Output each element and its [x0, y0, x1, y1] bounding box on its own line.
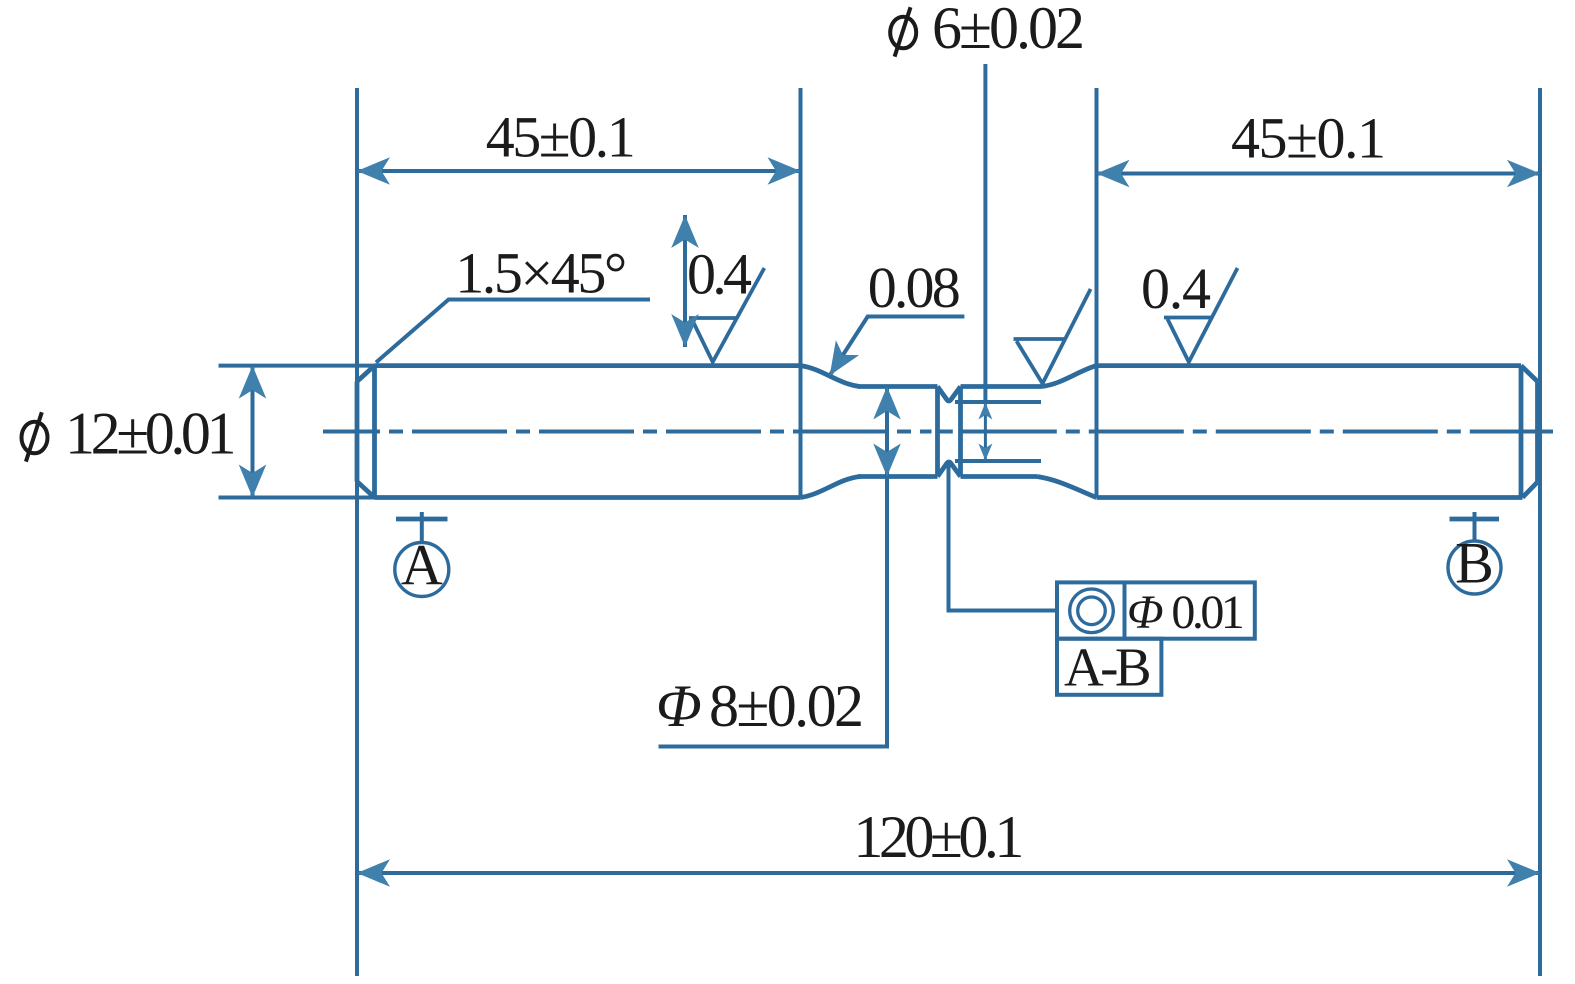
part outline: left grip top — [375, 363, 801, 368]
phi6 small arrows — [978, 403, 992, 420]
extension line left (x=357) — [355, 88, 359, 976]
svg-text:Φ: Φ — [656, 673, 702, 739]
svg-text:45±0.1: 45±0.1 — [486, 105, 636, 170]
svg-text:0.4: 0.4 — [687, 242, 752, 307]
dimension 45±0.1 right: line — [1097, 172, 1541, 176]
part outline: left grip bottom — [375, 495, 801, 500]
leader 0.08 — [830, 317, 965, 376]
datum reference box A-B — [1057, 639, 1161, 695]
svg-text:1.5×45°: 1.5×45° — [455, 241, 627, 306]
part outline: notch left edge — [935, 387, 940, 477]
dimension 120±0.1: line — [357, 871, 1540, 875]
part outline: right grip bottom — [1097, 495, 1523, 500]
part outline: notch right edge — [958, 387, 963, 477]
svg-text:A-B: A-B — [1064, 637, 1152, 698]
phi12 extension stub bottom — [219, 496, 376, 500]
svg-text:Φ: Φ — [1127, 586, 1164, 639]
part outline: phi8 gauge bottom left — [858, 474, 938, 479]
text phi 12±0.01 — [22, 412, 48, 461]
roughness symbol right grip — [1164, 268, 1238, 362]
concentricity symbol — [1070, 589, 1114, 633]
part outline: right grip top — [1097, 363, 1522, 368]
part outline: phi8 top right — [961, 384, 1043, 389]
svg-text:0.08: 0.08 — [868, 255, 961, 320]
leader to concentricity frame — [949, 462, 1058, 611]
center line (axis) right part — [939, 430, 1553, 434]
extension line right (x=1540) — [1538, 88, 1542, 976]
datum A: bar, stem, circle — [396, 517, 448, 522]
svg-text:120±0.1: 120±0.1 — [853, 804, 1024, 870]
part outline: left chamfer — [357, 366, 375, 498]
datum B: bar, stem, circle — [1450, 517, 1500, 522]
0.08 leader arrowhead — [818, 340, 859, 383]
svg-text:8±0.02: 8±0.02 — [709, 673, 864, 739]
part outline: phi8 bottom right — [961, 474, 1038, 479]
0.4 vertical double arrow heads — [671, 215, 699, 248]
45 right dim arrows — [1097, 160, 1130, 188]
part outline: left taper bottom curve — [801, 477, 861, 498]
roughness symbol middle (phi8 section) — [1014, 289, 1091, 384]
part outline: phi8 gauge top left — [858, 384, 938, 389]
phi8 dim arrows — [873, 387, 901, 420]
leader 1.5x45 — [376, 300, 650, 363]
svg-text:6±0.02: 6±0.02 — [932, 0, 1085, 61]
svg-text:45±0.1: 45±0.1 — [1231, 106, 1386, 171]
extension line left-inner (x=800.5) — [799, 88, 803, 497]
dimension 45±0.1 left: line — [357, 169, 801, 173]
part outline: right chamfer — [1521, 366, 1538, 498]
phi6 extension line bottom — [955, 459, 1041, 463]
dimension phi8: vertical line + underline of label — [659, 387, 890, 747]
roughness symbol left grip — [689, 268, 764, 362]
svg-text:0.01: 0.01 — [1171, 586, 1244, 639]
120 dim arrows — [357, 859, 390, 887]
arrowheads — [239, 157, 1540, 887]
text phi 6±0.02 — [890, 7, 916, 56]
dimension phi6: small vertical line — [984, 403, 987, 461]
part outline: notch top pinch — [938, 387, 961, 401]
phi6 leader vertical — [983, 64, 987, 402]
center line (axis) left part — [323, 430, 932, 434]
vertical double arrow near 0.4 left — [683, 215, 687, 347]
svg-text:B: B — [1455, 531, 1494, 596]
svg-text:0.4: 0.4 — [1141, 256, 1211, 321]
extension line right-inner (x=1096.5) — [1095, 88, 1099, 497]
phi12 dim arrows — [239, 366, 267, 399]
part outline: left taper top curve — [801, 366, 861, 387]
45 left dim arrows — [357, 157, 390, 185]
phi6 extension line top — [955, 400, 1041, 404]
part outline: right flare bottom curve — [1037, 477, 1097, 498]
part outline: right flare top curve — [1042, 366, 1097, 387]
svg-text:A: A — [401, 533, 443, 598]
phi12 extension stub top — [219, 364, 376, 368]
feature control frame — [1057, 582, 1255, 638]
dimension phi12: line — [251, 366, 255, 498]
svg-text:12±0.01: 12±0.01 — [65, 401, 237, 467]
part outline: notch bottom pinch — [938, 462, 961, 476]
